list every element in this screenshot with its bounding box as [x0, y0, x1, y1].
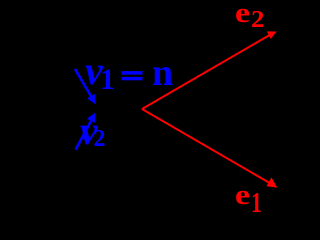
vector arrow e1 (red, down-right): [142, 109, 277, 188]
label n (bold): [152, 52, 173, 94]
svg-text:1: 1: [100, 63, 115, 96]
label nu1 (greek nu italic): [85, 48, 115, 96]
equals sign: [122, 71, 143, 80]
wave vector arrow nu1 (blue, down-right): [75, 69, 96, 105]
svg-text:e: e: [235, 0, 250, 28]
vector arrow e2 (red, up-right): [142, 31, 277, 109]
label e1: [235, 179, 262, 219]
svg-text:2: 2: [251, 5, 264, 33]
wave vector arrow nu2 (blue, up-right): [76, 113, 95, 150]
label e2: [235, 0, 264, 33]
svg-text:e: e: [235, 179, 250, 211]
svg-text:n: n: [152, 52, 173, 94]
svg-text:1: 1: [251, 189, 262, 218]
label nu2 (greek nu italic): [80, 108, 106, 153]
svg-text:2: 2: [94, 126, 106, 152]
